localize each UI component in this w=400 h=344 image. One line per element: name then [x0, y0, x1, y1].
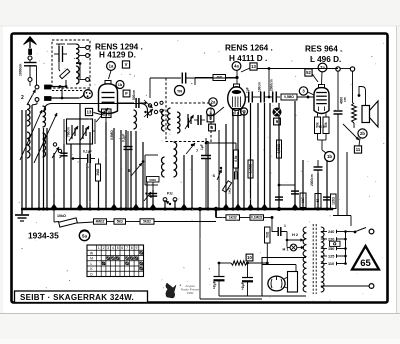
wire	[174, 200, 176, 209]
svg-text:8: 8	[131, 246, 133, 250]
svg-text:2b: 2b	[360, 131, 365, 136]
resistor 0.1M vertical mid	[248, 160, 253, 178]
mains switch	[346, 231, 356, 233]
wire	[135, 131, 137, 209]
resistor vertical 50ohm	[265, 227, 271, 243]
svg-text:0,1MΩ2: 0,1MΩ2	[251, 216, 263, 220]
wire	[63, 144, 65, 209]
svg-text:5: 5	[117, 246, 119, 250]
smoothing resistor	[219, 262, 231, 264]
terminal	[28, 78, 32, 82]
switch arrow to 2b	[343, 124, 359, 140]
svg-text:0,1μF: 0,1μF	[122, 134, 126, 142]
circled 5a year	[79, 230, 89, 240]
capacitor on wire x64	[60, 152, 67, 154]
table marks	[107, 257, 110, 260]
band switch contacts	[53, 143, 56, 146]
wire	[46, 128, 48, 209]
label strip x333	[331, 194, 337, 209]
svg-text:5kΩ: 5kΩ	[117, 220, 124, 224]
aerial input plug upper	[45, 85, 52, 89]
trimmer arrow 1	[20, 110, 42, 160]
wire	[31, 105, 33, 209]
label circle 2	[207, 108, 215, 116]
coupler resistor	[60, 69, 70, 79]
capacitor in coupler	[58, 46, 60, 62]
capacitor 1000cm	[24, 62, 37, 64]
aerial input plug lower	[45, 97, 52, 101]
svg-text:+8μF: +8μF	[241, 282, 245, 290]
electrolytic cap 8uF no1	[218, 263, 220, 277]
wire	[326, 160, 328, 209]
speaker return wires	[337, 114, 339, 216]
tube V1 RENS 1294	[105, 81, 111, 85]
wave switch indicator	[84, 90, 93, 99]
speaker field resistor	[352, 103, 357, 123]
ground bus	[21, 208, 333, 211]
antenna	[29, 39, 31, 48]
tube V1 base	[102, 109, 112, 118]
resistor box 5k2	[140, 219, 154, 224]
tube V3 RES 964	[319, 85, 325, 88]
svg-text:2a: 2a	[211, 100, 216, 105]
svg-text:10: 10	[247, 255, 252, 260]
svg-text:5kΩ2: 5kΩ2	[143, 220, 151, 224]
svg-text:F: F	[125, 91, 128, 96]
rectifier loop	[262, 258, 306, 297]
wire	[130, 131, 132, 209]
wire	[70, 144, 72, 209]
aerial switch 2	[29, 82, 31, 87]
switch S	[217, 170, 222, 181]
wire terminal stub	[340, 68, 350, 70]
wire	[53, 153, 55, 209]
bias resistors under tube	[317, 114, 319, 118]
svg-text:RENS 1264 .: RENS 1264 .	[225, 44, 273, 53]
wire	[294, 101, 296, 209]
wire	[264, 103, 266, 209]
svg-text:H 2: H 2	[292, 232, 299, 237]
svg-text:125: 125	[328, 254, 334, 258]
svg-text:1990: 1990	[187, 291, 194, 295]
svg-text:TR: TR	[177, 88, 182, 93]
coupler coil upper	[76, 44, 79, 63]
transformer core	[312, 224, 314, 294]
svg-text:0,1μF: 0,1μF	[83, 150, 92, 154]
wire	[237, 112, 239, 209]
input coil L2a	[27, 132, 30, 158]
svg-text:240: 240	[328, 230, 334, 234]
svg-text:3: 3	[107, 246, 109, 250]
bus end drop	[332, 209, 334, 210]
coupler coil lower	[76, 66, 79, 84]
wire L to screen resistor	[206, 142, 236, 144]
capacitor near H2	[277, 227, 279, 236]
svg-text:65: 65	[360, 258, 371, 269]
svg-text:P.U.: P.U.	[167, 192, 174, 196]
capacitor 0.1uF	[87, 154, 89, 163]
cap above bus x279	[275, 196, 283, 198]
heater wire lamp	[286, 240, 288, 248]
svg-text:13: 13	[87, 110, 92, 115]
svg-text:0,5MΩ: 0,5MΩ	[110, 130, 114, 140]
capacitor 0.1uF tube1	[124, 146, 133, 148]
antenna coupling unit dashed box	[52, 40, 90, 88]
svg-text:0,5MΩ: 0,5MΩ	[284, 95, 294, 99]
IFT1 top wire with coupling cap	[150, 77, 181, 79]
svg-text:4a: 4a	[234, 64, 239, 69]
wire	[142, 142, 144, 209]
ground symbol	[21, 209, 23, 214]
wire	[86, 163, 88, 209]
wire to AF cap	[278, 184, 281, 187]
svg-text:50: 50	[316, 198, 320, 202]
svg-text:1a: 1a	[109, 64, 114, 69]
grid resistor box	[213, 75, 226, 81]
voltage taps	[321, 231, 327, 233]
resistor box 40ohm	[94, 219, 107, 224]
fuse triangle 65	[352, 246, 379, 270]
scan noise	[134, 76, 135, 77]
svg-text:5a: 5a	[82, 233, 87, 238]
IFT1 trimmer	[187, 114, 189, 127]
wire	[79, 104, 81, 209]
svg-text:1μF: 1μF	[200, 144, 204, 150]
svg-text:1kΩ2: 1kΩ2	[229, 216, 237, 220]
svg-text:cm: cm	[343, 97, 347, 102]
switch 3a	[148, 104, 151, 107]
wire	[269, 103, 271, 209]
tube V2 RENS 1264	[234, 84, 240, 87]
rectifier base	[288, 272, 298, 293]
wire	[113, 128, 115, 209]
IFT1 secondary coil	[177, 112, 180, 133]
resistor box 0.1M	[250, 215, 264, 220]
svg-text:3MΩ: 3MΩ	[96, 168, 100, 175]
svg-text:1b: 1b	[118, 83, 123, 87]
wire	[21, 110, 23, 209]
coupler terminals	[86, 46, 90, 50]
wire	[38, 128, 40, 209]
osc coil mid	[174, 142, 177, 177]
svg-text:110: 110	[328, 262, 334, 266]
wire transformer bottom to terminal	[321, 285, 369, 287]
svg-text:1μF: 1μF	[246, 87, 250, 93]
output terminals	[336, 67, 340, 71]
wire	[152, 190, 154, 209]
svg-text:L: L	[91, 262, 93, 266]
svg-text:4: 4	[112, 246, 114, 250]
svg-text:11: 11	[356, 147, 361, 152]
osc trimmer right	[188, 118, 190, 128]
capacitor 2000cm output	[314, 166, 323, 168]
svg-text:2000cm: 2000cm	[270, 79, 274, 91]
resistor vertical x279	[277, 140, 282, 158]
cathode variable resistor	[96, 108, 108, 122]
bus junction dots	[37, 207, 40, 210]
wire	[98, 181, 100, 209]
svg-text:9: 9	[136, 246, 138, 250]
svg-text:1: 1	[98, 246, 100, 250]
label circle 1b	[116, 81, 124, 89]
label circle 3	[299, 87, 307, 95]
dark circle X	[273, 108, 281, 116]
svg-text:2: 2	[21, 95, 24, 101]
svg-text:2: 2	[103, 246, 105, 250]
grid label circle 4a	[232, 62, 241, 71]
grid label circle 7a	[318, 63, 327, 72]
svg-text:100cm: 100cm	[258, 82, 262, 92]
wire	[164, 200, 166, 209]
tuning gang box	[67, 119, 93, 144]
label 4b	[240, 108, 247, 115]
tap collector wire	[345, 232, 347, 264]
osc coil upper	[162, 110, 165, 131]
svg-text:M: M	[90, 257, 93, 261]
cap above bus x327	[323, 196, 331, 198]
IFT1 fixed cap	[197, 115, 199, 125]
switch 6	[131, 163, 142, 176]
wire down from bias	[321, 140, 323, 150]
mains transformer primary	[303, 227, 306, 292]
svg-text:4b: 4b	[242, 110, 246, 114]
shield dashed extension	[52, 90, 83, 92]
wire	[120, 130, 122, 209]
resistor above bus x303	[300, 193, 306, 208]
publisher logo	[166, 283, 176, 298]
bias line 2	[216, 217, 226, 219]
mains terminal top	[369, 229, 374, 234]
svg-text:50k: 50k	[324, 122, 328, 128]
svg-text:120Ω: 120Ω	[331, 197, 335, 205]
bottom rail wire	[200, 298, 262, 300]
svg-text:1000cm: 1000cm	[19, 64, 23, 76]
title box	[15, 291, 148, 303]
wire	[257, 103, 259, 209]
svg-text:H 2: H 2	[319, 125, 325, 129]
osc wiring	[164, 131, 166, 157]
anode coupling capacitor 500cm	[118, 102, 135, 104]
tube V2 base	[233, 109, 242, 116]
wire	[278, 103, 280, 209]
resistor above bus x318	[315, 194, 321, 209]
wire x219	[218, 130, 220, 209]
wire	[146, 182, 148, 209]
wire	[25, 110, 27, 209]
screen resistor vertical	[234, 150, 239, 168]
switch 7	[186, 143, 195, 154]
wire	[250, 103, 252, 209]
choke coil	[134, 110, 137, 129]
wire	[317, 173, 319, 209]
input coil L1a	[27, 104, 30, 126]
heater wires	[281, 231, 287, 233]
trimmer arrow 2	[34, 113, 57, 163]
electrolytic cap 8uF no2	[247, 263, 249, 278]
svg-text:+8μF: +8μF	[213, 281, 217, 289]
wire	[207, 142, 209, 209]
svg-text:6: 6	[121, 246, 123, 250]
label circle 2a	[209, 98, 217, 106]
svg-text:13: 13	[251, 64, 256, 69]
svg-text:5000: 5000	[149, 178, 156, 182]
svg-text:500cm: 500cm	[132, 90, 136, 100]
svg-text:4MΩ2: 4MΩ2	[96, 220, 105, 224]
top wire to output terminals	[253, 63, 255, 70]
cathode cap small	[234, 172, 236, 180]
wire	[191, 155, 193, 209]
svg-text:10kΩ: 10kΩ	[57, 214, 66, 218]
tap fuse	[330, 241, 341, 246]
switch position table	[87, 245, 144, 277]
svg-text:V: V	[125, 62, 128, 67]
variable resistor 1k diagonal	[222, 181, 231, 192]
grid-cap label circle 1a	[107, 62, 116, 71]
svg-text:SEIBT · SKAGERRAK 324W.: SEIBT · SKAGERRAK 324W.	[20, 293, 134, 302]
svg-text:1934-35: 1934-35	[28, 231, 59, 241]
resistor box 1k	[226, 215, 240, 220]
input coil L2b	[43, 133, 46, 157]
svg-text:0,5MΩ: 0,5MΩ	[277, 143, 281, 153]
IFT1 shield box	[166, 78, 211, 142]
wire	[232, 112, 234, 209]
switch label square	[85, 108, 92, 115]
label circle 1b right	[325, 152, 335, 162]
svg-text:40Ω: 40Ω	[216, 76, 223, 80]
wire	[243, 112, 245, 209]
anode line caps	[245, 96, 248, 98]
loudspeaker	[362, 106, 370, 123]
padder capacitor 5000cm	[147, 177, 160, 183]
antenna terminal	[28, 56, 32, 60]
resistor 30k vertical	[96, 164, 101, 181]
resistor box 5k	[114, 219, 126, 224]
wire	[125, 130, 127, 209]
bus junction wedges	[51, 204, 57, 208]
gang trimmer cap 2	[82, 125, 84, 139]
switch 6b	[144, 192, 151, 201]
svg-text:1b: 1b	[327, 154, 332, 159]
mains terminal bottom	[369, 284, 374, 289]
svg-text:0,5k: 0,5k	[234, 155, 238, 161]
wire	[105, 122, 107, 209]
wire	[225, 124, 227, 209]
svg-text:7: 7	[126, 246, 128, 250]
svg-text:1: 1	[284, 224, 286, 228]
mains transformer secondary	[321, 227, 324, 292]
bus drop to bias line	[215, 209, 217, 218]
border frame	[12, 34, 388, 303]
svg-text:1kΩ: 1kΩ	[228, 188, 232, 194]
svg-text:2: 2	[209, 110, 211, 114]
wire	[89, 132, 91, 209]
wire	[183, 155, 185, 209]
svg-text:2000cm: 2000cm	[310, 174, 314, 186]
circle label TR	[175, 86, 185, 96]
wire	[43, 128, 45, 209]
wire bus to bottom rail	[199, 209, 201, 299]
osc coil lower	[162, 157, 165, 177]
resistor 0.5M	[281, 94, 297, 100]
svg-text:150: 150	[328, 247, 334, 251]
rectifier tube	[268, 276, 285, 291]
svg-text:L 496 D.: L 496 D.	[310, 55, 341, 64]
IFT1 primary coil	[168, 108, 171, 130]
input coil L1b	[43, 106, 46, 127]
svg-text:52: 52	[306, 70, 311, 75]
tuner enclosure top edge	[44, 104, 148, 119]
svg-text:H 4129 D.: H 4129 D.	[99, 51, 136, 60]
svg-text:0,1MΩ: 0,1MΩ	[249, 163, 253, 173]
svg-text:RES 964 .: RES 964 .	[305, 45, 342, 54]
svg-text:700cm: 700cm	[67, 127, 71, 137]
svg-text:50Ω: 50Ω	[265, 231, 269, 238]
label circle 2b	[358, 129, 367, 138]
gang trimmer cap 1	[71, 125, 73, 139]
wire	[302, 160, 304, 209]
